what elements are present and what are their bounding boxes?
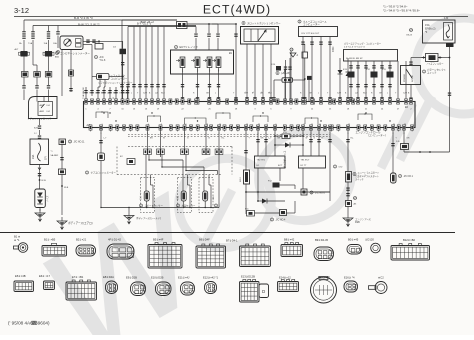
svg-text:E16③ *4: E16③ *4	[344, 276, 355, 280]
wire	[212, 23, 218, 25]
connector C9 complex	[240, 282, 260, 303]
svg-text:GS: GS	[409, 28, 413, 32]
svg-text:15A: 15A	[425, 23, 430, 27]
shield dashed enclosures	[141, 178, 155, 213]
svg-text:5A-NB2: 5A-NB2	[51, 154, 59, 157]
svg-text:B2①×21: B2①×21	[76, 238, 87, 242]
svg-text:ECT(4WD): ECT(4WD)	[203, 3, 271, 17]
junction J/C No.2	[95, 44, 103, 50]
connector B6 large	[196, 246, 226, 268]
noise filter U9	[426, 54, 439, 62]
connector C12	[344, 281, 358, 292]
wire	[403, 150, 405, 153]
connector B7 large	[240, 246, 271, 267]
fuse F11	[247, 211, 255, 217]
relay R5	[45, 72, 52, 78]
svg-text:B8②×42: B8②×42	[284, 238, 295, 242]
ECU spare top terminals	[169, 99, 172, 104]
svg-text:コンビネーションメーター: コンビネーションメーター	[60, 51, 90, 55]
wire	[397, 61, 399, 104]
svg-text:E6④ ×17: E6④ ×17	[39, 274, 51, 278]
svg-text:コンピューター: コンピューター	[303, 22, 320, 26]
sub throttle motor M1	[100, 128, 102, 154]
noise filter U4	[35, 189, 46, 208]
svg-text:W-R: W-R	[363, 93, 367, 95]
connector B12 wide	[391, 246, 430, 261]
connector C2	[44, 281, 55, 290]
wire	[122, 19, 177, 21]
ECU bottom terminals	[100, 125, 103, 130]
wire	[23, 77, 25, 85]
twisted pair link 1	[148, 155, 150, 161]
connector C3 large	[66, 282, 97, 300]
fuse F14	[276, 66, 281, 71]
ground G1	[39, 208, 41, 212]
diode D4	[307, 76, 312, 80]
svg-text:E11②×4J: E11②×4J	[178, 276, 190, 280]
connector B1 round	[18, 243, 28, 253]
ECU internal jumpers	[96, 112, 108, 118]
wire	[92, 76, 97, 78]
speed sensor No.1 SP1	[144, 191, 149, 201]
svg-text:O/D: O/D	[339, 167, 343, 169]
svg-text:B12②×B2: B12②×B2	[403, 238, 416, 242]
svg-text:E14⑤×12: E14⑤×12	[279, 276, 291, 280]
wire	[290, 51, 292, 102]
svg-text:コンピューター: コンピューター	[111, 76, 128, 80]
wire main feed to pattern switch	[411, 57, 426, 59]
svg-text:ボディアース(シールド): ボディアース(シールド)	[136, 216, 161, 220]
svg-text:A/C: A/C	[100, 56, 104, 59]
svg-text:G-W: G-W	[143, 93, 147, 95]
svg-text:L: L	[318, 93, 319, 95]
water temp sensor	[181, 191, 186, 201]
wire O/D	[329, 128, 331, 193]
header rule	[14, 16, 468, 18]
shield dashed bus upper	[128, 133, 330, 135]
wire solenoid lead	[197, 68, 199, 75]
wire meter ground drop	[61, 50, 63, 97]
svg-text:W-R: W-R	[113, 93, 117, 95]
ground G2 body earth	[57, 217, 67, 230]
svg-text:E1 TT: E1 TT	[301, 165, 308, 167]
svg-text:O/D: O/D	[213, 196, 215, 200]
relay E13	[348, 72, 355, 78]
junction J/C No.6	[301, 189, 307, 195]
svg-text:E5④×4B: E5④×4B	[15, 274, 26, 278]
svg-text:⊕ *1: ⊕ *1	[14, 238, 20, 242]
svg-text:ECT: ECT	[278, 165, 283, 167]
relay R4	[34, 72, 41, 78]
connector B10 oval	[347, 245, 362, 255]
ECU spare bottom terminals	[89, 125, 92, 130]
wire junction box right	[293, 79, 305, 81]
ECT computer U1	[84, 102, 416, 128]
svg-text:R-L: R-L	[222, 138, 225, 140]
component A5	[346, 201, 352, 207]
wire ignition feeds	[36, 97, 38, 102]
connector C6 oval	[156, 282, 172, 296]
wire	[347, 207, 349, 215]
svg-text:2.5 *CL.3 *2 *CL.5 *4: 2.5 *CL.3 *2 *CL.5 *4	[344, 47, 365, 49]
solenoid S2	[195, 57, 200, 68]
junction small	[290, 48, 293, 51]
wire meter cluster to ECU	[85, 87, 87, 102]
svg-text:J/C NO.4: J/C NO.4	[276, 219, 287, 222]
wire cruise leads	[302, 37, 304, 102]
connector C11 round	[311, 277, 337, 303]
connector B4 oval	[107, 244, 134, 259]
svg-text:W: W	[163, 138, 165, 140]
svg-text:GS: GS	[353, 196, 357, 200]
A/C label	[94, 55, 97, 58]
svg-text:(' 95/08 4A6739604): (' 95/08 4A6739604)	[8, 321, 50, 326]
svg-text:スイッチ: スイッチ	[427, 71, 437, 75]
wire shift lock down leads	[99, 80, 101, 88]
connector C5 oval	[131, 282, 146, 296]
wire solenoid lead	[209, 68, 211, 75]
svg-text:EFI: EFI	[45, 156, 48, 160]
check connector DLC1	[255, 156, 286, 168]
solenoid ST	[216, 57, 221, 68]
junction label	[85, 171, 88, 174]
junction J/C No.4 label	[276, 71, 279, 74]
svg-text:L: L	[387, 93, 388, 95]
svg-text:*2:~'94.8 *3:~'95.8 *4:'95.8~: *2:~'94.8 *3:~'95.8 *4:'95.8~	[383, 9, 420, 13]
diode D2	[338, 70, 343, 74]
svg-text:L: L	[131, 93, 132, 95]
connector B8	[281, 245, 303, 257]
relay R3	[22, 72, 29, 78]
wire pattern switch leads	[410, 58, 412, 66]
connector B11 round	[371, 243, 381, 253]
TE1 connector DLC2	[299, 156, 326, 168]
pattern select switch SW2	[401, 66, 421, 85]
wire solenoid lead	[182, 68, 184, 75]
fuse F11b	[273, 183, 280, 188]
wire junction box left	[274, 79, 282, 81]
junction box	[282, 78, 293, 82]
svg-text:OLV OTT EG OUT: OLV OTT EG OUT	[301, 33, 320, 35]
svg-text:J/C NO.1: J/C NO.1	[404, 176, 414, 178]
svg-text:⊕C2: ⊕C2	[378, 276, 384, 280]
svg-text:W-B: W-B	[64, 187, 69, 189]
ground G5 engine earth	[343, 214, 353, 227]
wire solenoid lead	[218, 68, 220, 75]
svg-text:20A: 20A	[32, 154, 35, 159]
svg-text:P&B: P&B	[355, 222, 360, 224]
GS circle node	[353, 196, 356, 199]
node label combination meter	[55, 51, 58, 54]
shield dashed bus lines	[128, 146, 232, 148]
speed sensor No.2 SP2	[244, 170, 250, 184]
wire	[285, 60, 287, 102]
ECU top terminals	[85, 99, 88, 104]
svg-text:E9②D2B: E9②D2B	[126, 276, 137, 280]
wire shift lock out	[109, 76, 123, 78]
svg-text:G-W: G-W	[244, 93, 248, 95]
svg-text:B1② ×B5: B1② ×B5	[44, 238, 56, 242]
svg-text:ボディアース(エアロ): ボディアース(エアロ)	[68, 221, 93, 225]
svg-text:4P②D1-42: 4P②D1-42	[108, 238, 122, 242]
wire	[392, 128, 394, 174]
svg-text:L: L	[215, 93, 216, 95]
wire sensor lead	[184, 128, 186, 150]
svg-text:J/C NO.11: J/C NO.11	[74, 141, 86, 144]
svg-text:B9①D4-45: B9①D4-45	[315, 238, 329, 242]
wire	[101, 207, 129, 209]
wire	[145, 155, 147, 192]
solenoid S1	[180, 57, 185, 68]
wire bus B-R top	[24, 19, 177, 21]
wire	[347, 182, 349, 201]
svg-text:B-Y *CL.3 *3: B-Y *CL.3 *3	[137, 23, 152, 26]
ignition switch SW1	[29, 97, 58, 119]
wire DLC leads	[257, 128, 259, 157]
sub throttle position sensor	[127, 159, 135, 165]
wire	[245, 128, 247, 171]
svg-text:E7④ ×B1: E7④ ×B1	[72, 275, 84, 279]
wire lower net	[257, 168, 259, 192]
svg-text:W-R: W-R	[268, 93, 272, 95]
shift lock ECU U3	[97, 74, 110, 80]
decorative watermark (not labelled further)	[163, 18, 474, 264]
junction J/C No.5 lower	[59, 169, 66, 175]
svg-text:B0②×45: B0②×45	[348, 238, 359, 242]
relay R6	[69, 70, 74, 76]
connector B9 oval	[314, 247, 334, 261]
wire sensor lead	[218, 128, 220, 150]
diode D5	[285, 143, 290, 148]
svg-text:AM2: AM2	[40, 110, 45, 113]
svg-text:ECTソレノイド: ECTソレノイド	[180, 45, 199, 49]
connector C8 oval	[205, 282, 217, 294]
wire ECU to TT terminal	[403, 128, 405, 144]
fuse block F5 20A EFI	[30, 139, 49, 165]
connector B2	[42, 246, 67, 257]
svg-text:4WD: 4WD	[332, 46, 335, 52]
svg-text:エンジンコントロール: エンジンコントロール	[356, 130, 382, 134]
connector C13 round	[375, 282, 387, 294]
combination meter U2 (check engine lamp)	[60, 36, 83, 50]
twisted pair link 3	[185, 155, 187, 171]
resistor R7 solenoid resistor	[391, 173, 397, 183]
svg-text:E8②D4A: E8②D4A	[103, 275, 114, 279]
fuse F1 ALT	[21, 51, 28, 57]
wire lamp to J/C	[83, 40, 123, 42]
wire bus link mid	[235, 24, 237, 102]
svg-text:GS+B: GS+B	[406, 35, 412, 37]
junction J/C No.5	[59, 139, 66, 145]
wire ABS leads	[350, 61, 352, 102]
diode D6	[262, 199, 267, 204]
svg-text:FL FR RL RR SP: FL FR RL RR SP	[346, 58, 363, 60]
connector C1	[14, 281, 34, 292]
svg-text:G-W: G-W	[95, 93, 99, 95]
svg-text:POWER: POWER	[404, 73, 406, 82]
svg-text:W-R: W-R	[161, 93, 165, 95]
junction dots shield	[148, 159, 149, 160]
wire	[208, 24, 210, 33]
wire sensor lead	[160, 128, 162, 150]
solenoid SL	[207, 57, 212, 68]
svg-text:G-W: G-W	[403, 93, 407, 95]
connector C7 oval	[181, 282, 195, 295]
svg-text:NORM: NORM	[412, 75, 414, 82]
wire IG1 down	[39, 119, 41, 126]
twisted pair link 2	[161, 155, 163, 168]
ground G4 shield earth	[124, 212, 134, 225]
svg-text:3-12: 3-12	[14, 6, 29, 15]
svg-text:GS: GS	[290, 48, 294, 52]
resistor R6	[302, 52, 308, 58]
svg-text:B1 ⊕: B1 ⊕	[14, 235, 21, 239]
wire	[245, 192, 247, 214]
svg-text:TE2 TE1: TE2 TE1	[257, 160, 266, 162]
wire relay to solenoid box	[195, 49, 197, 51]
wire	[57, 26, 59, 32]
wire	[48, 26, 50, 32]
svg-text:W: W	[306, 138, 308, 140]
svg-text:B5②×4F: B5②×4F	[153, 238, 164, 242]
fuse output terminal	[446, 43, 454, 47]
throttle position sensor U6	[242, 21, 245, 24]
svg-text:②D120: ②D120	[365, 238, 374, 242]
wire sensor lead	[205, 128, 207, 150]
svg-text:1J0: 1J0	[444, 16, 449, 20]
wire	[32, 26, 34, 32]
svg-text:R-L: R-L	[351, 138, 354, 140]
svg-text:E10②D2B: E10②D2B	[151, 276, 164, 280]
svg-text:L: L	[83, 93, 84, 95]
wire	[23, 57, 25, 72]
AM2 circle node	[56, 50, 59, 53]
svg-text:TE1 ECT: TE1 ECT	[301, 160, 311, 162]
diode D3	[346, 72, 351, 76]
wire	[347, 128, 349, 172]
svg-text:(+B)(+B): (+B)(+B)	[281, 73, 290, 75]
svg-text:スロットルポジションセンサー: スロットルポジションセンサー	[247, 21, 281, 25]
svg-text:B7③D4-1: B7③D4-1	[226, 239, 238, 243]
wire sensor lead	[147, 128, 149, 150]
wire EFI fuse down	[449, 47, 451, 51]
wire	[289, 58, 291, 102]
svg-text:B-R *2.3 W *3: B-R *2.3 W *3	[74, 16, 93, 20]
wire	[339, 58, 341, 102]
GS circle	[409, 28, 412, 31]
relay E12	[371, 72, 378, 78]
wire	[195, 27, 197, 34]
wire harness cluster	[133, 27, 135, 102]
diode D1	[120, 49, 127, 55]
connector B3 oval	[76, 245, 96, 256]
svg-text:E13③D12B: E13③D12B	[241, 275, 255, 279]
fuse F2	[45, 51, 52, 57]
svg-text:B-W *CL.5 W *2: B-W *CL.5 W *2	[78, 23, 100, 27]
ECU internal junction dots	[103, 112, 104, 113]
separator rule above connector chart	[0, 232, 455, 234]
svg-text:B-R: B-R	[34, 128, 38, 130]
svg-text:*CL.8: *CL.8	[100, 60, 106, 62]
cruise control computer U7	[298, 20, 301, 23]
wire	[39, 165, 41, 190]
connector C4 oval	[106, 281, 118, 294]
connector C10	[278, 282, 299, 292]
EFI main relay R1	[177, 22, 188, 29]
svg-text:G-W: G-W	[337, 93, 341, 95]
ECT solenoid valve assembly U5	[171, 50, 234, 74]
junction J/C No.4 box	[280, 210, 287, 216]
wire shield gather	[146, 201, 148, 208]
wire ALT feed	[23, 20, 25, 31]
svg-text:1J: 1J	[34, 133, 36, 135]
svg-text:ALT: ALT	[15, 48, 20, 51]
connector B5 large	[148, 245, 182, 269]
svg-text:B6②D4F: B6②D4F	[199, 238, 210, 242]
svg-text:7.5A: 7.5A	[28, 42, 33, 45]
wire TPS leads	[246, 44, 248, 102]
wire meter drop	[70, 50, 72, 71]
O/D direct clutch speed sensor	[203, 191, 208, 201]
fuse F15	[282, 134, 290, 139]
vacuum switch S3	[346, 172, 352, 183]
svg-text:E12③×42 *1: E12③×42 *1	[203, 276, 219, 280]
component TT	[401, 144, 409, 150]
relay E11	[387, 72, 394, 78]
